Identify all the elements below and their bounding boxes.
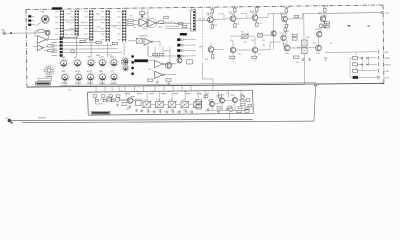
svg-text:103: 103	[171, 109, 174, 111]
transistor Q5	[177, 58, 182, 63]
wire vertical node V1	[273, 14, 275, 50]
box X2	[187, 60, 193, 64]
bus bar black top	[52, 7, 62, 9]
wires CN2 right	[183, 40, 196, 57]
row R2 box D2	[353, 63, 392, 67]
scattered value labels	[96, 10, 358, 111]
labels CN1	[52, 42, 57, 56]
svg-text:103: 103	[156, 100, 159, 102]
wires U3 region	[128, 41, 170, 68]
input jack J1	[2, 30, 6, 35]
wires CN3 up	[192, 7, 194, 9]
svg-text:222: 222	[205, 59, 208, 61]
svg-text:471: 471	[168, 91, 171, 93]
wire input inside frame	[26, 32, 38, 34]
contacts E4-E6 dots	[131, 55, 133, 75]
IC X1 box	[136, 38, 142, 43]
svg-text:471: 471	[152, 91, 155, 93]
value labels ladders	[66, 14, 117, 29]
switch bank SW4	[101, 10, 110, 42]
wires sub box	[119, 100, 241, 105]
cap C1 with arrow	[140, 9, 145, 18]
pot VR11 small	[128, 60, 129, 62]
row R1 box D1	[353, 56, 392, 60]
wires into CN3	[160, 24, 191, 29]
wire U1 out	[48, 38, 59, 40]
resistor chain R26	[302, 40, 308, 54]
wire main out to edge	[326, 12, 390, 19]
ground G3	[302, 58, 304, 60]
Q11	[284, 45, 290, 51]
connector contacts E1-E3	[28, 15, 34, 26]
op-amp U1	[37, 36, 48, 44]
svg-text:4.7: 4.7	[140, 111, 142, 113]
wire aux send	[325, 50, 389, 54]
switch bank SW5	[117, 10, 126, 43]
pot VR1	[67, 62, 68, 64]
svg-text:331: 331	[242, 96, 245, 98]
op-amp U6	[139, 19, 148, 27]
resistor R10	[148, 79, 153, 81]
svg-text:SOLO: SOLO	[385, 78, 391, 80]
svg-text:C945: C945	[216, 95, 220, 97]
extra sub-box left parts	[96, 97, 132, 108]
svg-text:103: 103	[133, 27, 136, 29]
bus wire A bottom	[10, 119, 252, 120]
trim pot RV3	[167, 100, 176, 109]
resistor R9 above U4	[153, 53, 164, 55]
resistors sub box top	[94, 95, 120, 102]
switch bank SW2	[70, 10, 79, 36]
svg-text:A733: A733	[318, 11, 322, 14]
sub assembly frame	[88, 90, 254, 115]
wires pots down to frame bottom	[65, 80, 103, 87]
svg-text:471: 471	[238, 54, 241, 56]
svg-text:47: 47	[330, 43, 332, 45]
svg-text:C945: C945	[199, 47, 203, 49]
svg-text:103: 103	[183, 109, 186, 111]
svg-text:MID: MID	[88, 57, 92, 59]
knob bottom labels	[62, 83, 117, 84]
switch bank SW1	[55, 10, 64, 38]
Q4	[281, 7, 288, 28]
resistors sub right	[241, 100, 250, 110]
resistor R16	[182, 25, 187, 27]
pot VR7	[82, 76, 83, 78]
resistor R20	[292, 34, 297, 36]
resistor R22	[324, 22, 329, 24]
wire CN3 out	[196, 18, 211, 20]
row R4 dark box	[353, 76, 391, 80]
svg-text:472: 472	[126, 109, 129, 111]
pot VR6	[69, 76, 70, 78]
svg-text:AUX: AUX	[385, 51, 390, 54]
svg-text:PAN: PAN	[99, 70, 104, 73]
svg-text:C945: C945	[316, 53, 320, 55]
pot VR3	[95, 62, 96, 64]
bead on wire	[71, 50, 75, 53]
svg-text:100: 100	[296, 62, 299, 64]
wires CN1 to pots	[63, 39, 122, 53]
Q12	[316, 45, 322, 51]
svg-text:C945: C945	[285, 53, 289, 55]
Q2	[229, 7, 236, 28]
svg-text:C945: C945	[228, 12, 232, 14]
wire from bar	[148, 60, 155, 62]
resistor R13	[128, 23, 133, 25]
resistor R21	[292, 38, 297, 40]
svg-text:102: 102	[136, 91, 139, 93]
bus label smudge	[38, 117, 46, 118]
resistor R2	[44, 45, 59, 48]
main frame dash-dot border	[26, 5, 384, 87]
ground G2	[168, 82, 170, 84]
wires Q1-Q6 chain	[213, 13, 320, 19]
svg-text:CUE: CUE	[385, 71, 390, 73]
svg-text:4.7: 4.7	[177, 111, 179, 113]
svg-text:C945: C945	[230, 95, 234, 97]
cap C5	[324, 58, 328, 62]
Q3	[251, 6, 258, 27]
pot VR10	[118, 76, 119, 78]
wires between ladders	[63, 20, 122, 32]
wires ladder tops to border	[62, 8, 124, 10]
svg-text:4.7: 4.7	[164, 112, 166, 114]
svg-text:103: 103	[262, 45, 265, 47]
Q10	[252, 47, 257, 52]
svg-text:NJM4558: NJM4558	[140, 36, 148, 38]
resistor R27	[294, 56, 299, 58]
relay K1 box	[122, 60, 128, 64]
Q9	[230, 47, 235, 52]
svg-text:331: 331	[283, 44, 286, 46]
bus wire B bottom	[22, 121, 314, 123]
Q8	[315, 23, 322, 38]
labels U6	[143, 16, 151, 30]
Q22	[220, 98, 225, 103]
resistor R3	[44, 49, 59, 51]
Q1	[207, 8, 214, 29]
label box TASCAM	[36, 78, 52, 85]
resistor R11	[166, 79, 171, 81]
svg-text:PAN: PAN	[62, 70, 67, 73]
svg-text:C945: C945	[206, 13, 210, 15]
chain to bus bead	[304, 13, 317, 86]
svg-text:4X7: 4X7	[68, 90, 71, 92]
svg-text:LOW: LOW	[67, 14, 72, 16]
resistor R6	[96, 41, 101, 43]
resistor R15	[178, 23, 183, 25]
svg-text:4558: 4558	[158, 27, 162, 29]
svg-text:4.7: 4.7	[152, 112, 154, 114]
svg-text:102: 102	[184, 91, 187, 93]
connector CN3 housing	[191, 10, 196, 31]
trim pot RV20	[241, 33, 249, 39]
Q7	[280, 26, 287, 41]
svg-text:MUTE: MUTE	[165, 51, 171, 53]
Q15	[271, 31, 276, 36]
box X5	[136, 100, 142, 105]
link wires right rows	[350, 58, 368, 78]
rotary switch S1 top-left	[35, 11, 49, 27]
Q6	[319, 7, 326, 28]
row R3 box	[353, 69, 390, 73]
svg-text:PGM R: PGM R	[385, 65, 392, 67]
pot VR12 small	[128, 67, 129, 69]
resistor R17	[164, 16, 168, 18]
wires U6 U7	[133, 20, 191, 24]
Q13	[208, 47, 214, 59]
svg-text:EQ: EQ	[65, 34, 68, 36]
IC boxes U10	[196, 100, 201, 109]
svg-text:103: 103	[182, 100, 185, 102]
box X3	[258, 33, 263, 37]
resistor R7	[112, 42, 117, 44]
jumper bar black	[134, 59, 148, 62]
pot VR9	[106, 76, 107, 78]
Q16	[45, 30, 50, 35]
stub wires into sub box	[96, 85, 191, 92]
svg-text:TRIM: TRIM	[60, 57, 65, 59]
svg-text:C1815: C1815	[280, 13, 285, 15]
svg-text:4.7: 4.7	[189, 111, 191, 113]
ground G1	[156, 80, 158, 82]
pot VR5	[118, 62, 119, 64]
svg-text:A733: A733	[250, 10, 254, 13]
op-amp U7	[147, 19, 157, 27]
pot VR2	[81, 62, 82, 64]
svg-text:12: 12	[355, 54, 357, 56]
switch bank SW3	[84, 10, 93, 41]
resistor R24	[230, 56, 235, 58]
svg-text:103: 103	[146, 110, 149, 112]
pot VR8	[94, 76, 95, 78]
op-amp U4	[154, 60, 176, 67]
resistor R5	[80, 40, 85, 42]
wire input to frame	[6, 32, 26, 34]
sub box filler parts	[120, 91, 202, 114]
header bar black CN2	[180, 33, 187, 36]
svg-text:PGM L: PGM L	[385, 58, 392, 60]
svg-text:47: 47	[172, 64, 174, 66]
contact strip CN1	[60, 38, 63, 57]
contact strip CN2	[177, 38, 180, 57]
svg-text:4558: 4558	[143, 29, 147, 31]
label box sub assy	[91, 111, 110, 114]
Q21	[210, 102, 215, 107]
pot VR4	[106, 62, 107, 64]
labels mid cluster	[241, 31, 322, 64]
op-amp U5	[155, 71, 177, 78]
svg-text:PAD: PAD	[41, 11, 45, 14]
op-amp U3	[144, 38, 153, 45]
resistor R12	[128, 19, 133, 21]
svg-text:103: 103	[144, 100, 147, 102]
Q14	[166, 63, 172, 69]
resistor R23	[324, 26, 329, 28]
resistor R1 feedback	[35, 30, 49, 40]
wire bus riser right	[314, 86, 316, 122]
trim pot RV1	[142, 100, 151, 109]
ellipse outlines around U6 U7	[138, 18, 157, 28]
Q20	[127, 98, 133, 104]
inner bus above bottom border	[60, 83, 316, 86]
Q23	[232, 98, 237, 103]
svg-text:AUX1: AUX1	[75, 70, 81, 73]
svg-text:AUX2: AUX2	[87, 70, 93, 73]
resistor R25	[252, 56, 257, 58]
op-amp U2	[33, 45, 44, 51]
labels between frames	[68, 90, 224, 97]
svg-text:561: 561	[262, 40, 265, 42]
wires ladders down to pots	[62, 36, 124, 57]
misc dots top right	[348, 25, 370, 26]
svg-text:473: 473	[206, 93, 209, 95]
supply rail ticks	[210, 7, 328, 8]
resistor R14	[158, 21, 163, 23]
trim pot RV5	[193, 100, 202, 109]
wires mid cluster	[230, 35, 319, 61]
svg-text:221: 221	[313, 43, 316, 45]
node input junction	[10, 32, 12, 34]
trim pot RV2	[155, 100, 164, 109]
svg-text:223: 223	[120, 91, 123, 93]
beads CN2	[181, 39, 183, 57]
wire grid mid	[148, 44, 177, 56]
wires sub box right half	[205, 91, 252, 111]
trim pot RV4	[180, 100, 189, 109]
wire U7 to top rail	[145, 9, 149, 19]
svg-text:220: 220	[286, 31, 289, 33]
connector J9 bottom left	[6, 118, 13, 124]
svg-text:103: 103	[158, 110, 161, 112]
shield dash line	[201, 10, 204, 60]
sub right extra components	[204, 93, 250, 119]
resistor R28	[295, 15, 299, 17]
box around SW1-SW2 bottoms	[64, 30, 78, 37]
wires Q13	[203, 43, 225, 91]
svg-text:GAIN: GAIN	[96, 54, 101, 57]
ground G4	[309, 58, 311, 60]
rotary switch S2	[44, 65, 55, 77]
svg-text:LOW: LOW	[99, 57, 104, 59]
svg-text:471: 471	[258, 54, 261, 56]
svg-text:103: 103	[169, 100, 172, 102]
svg-text:MIC: MIC	[2, 30, 6, 32]
grounds sub box	[135, 109, 188, 113]
